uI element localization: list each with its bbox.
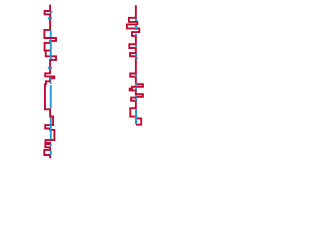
blue dash B10 <box>135 95 137 97</box>
blue dash B2 <box>135 25 137 30</box>
blue dash B4 <box>135 45 137 47</box>
blue dash B11 <box>135 99 137 101</box>
trace 2 blue baseline segments <box>135 19 138 125</box>
blue dash B8 <box>135 83 137 85</box>
blue dash B12 <box>135 109 137 124</box>
blue dash A10 <box>50 117 52 139</box>
trace 1 transition spur at y50.5 reaching center <box>45 50 51 52</box>
blue dash A11 <box>50 144 52 147</box>
blue tick A2 <box>48 17 52 19</box>
blue dash A3 <box>50 30 52 37</box>
trace 1 (left) red step waveform <box>44 5 56 159</box>
blue tick A6 <box>48 67 52 69</box>
trace 2 (right) red step waveform <box>127 5 143 124</box>
blue dash A8 <box>50 82 52 84</box>
blue dash B7 <box>135 75 137 77</box>
blue tick B6 <box>135 57 138 59</box>
blue dash A7 <box>50 78 52 81</box>
blue dash A1 <box>50 11 52 13</box>
blue dash A9 <box>50 85 52 108</box>
blue dash B3 <box>135 34 137 36</box>
blue dash A4 <box>50 39 52 59</box>
blue dash B5 <box>135 54 137 56</box>
blue dash A12 <box>50 150 52 155</box>
trace 1 blue baseline segments <box>48 11 52 155</box>
blue dash B9 <box>135 87 137 90</box>
blue dash B1 <box>135 19 137 21</box>
